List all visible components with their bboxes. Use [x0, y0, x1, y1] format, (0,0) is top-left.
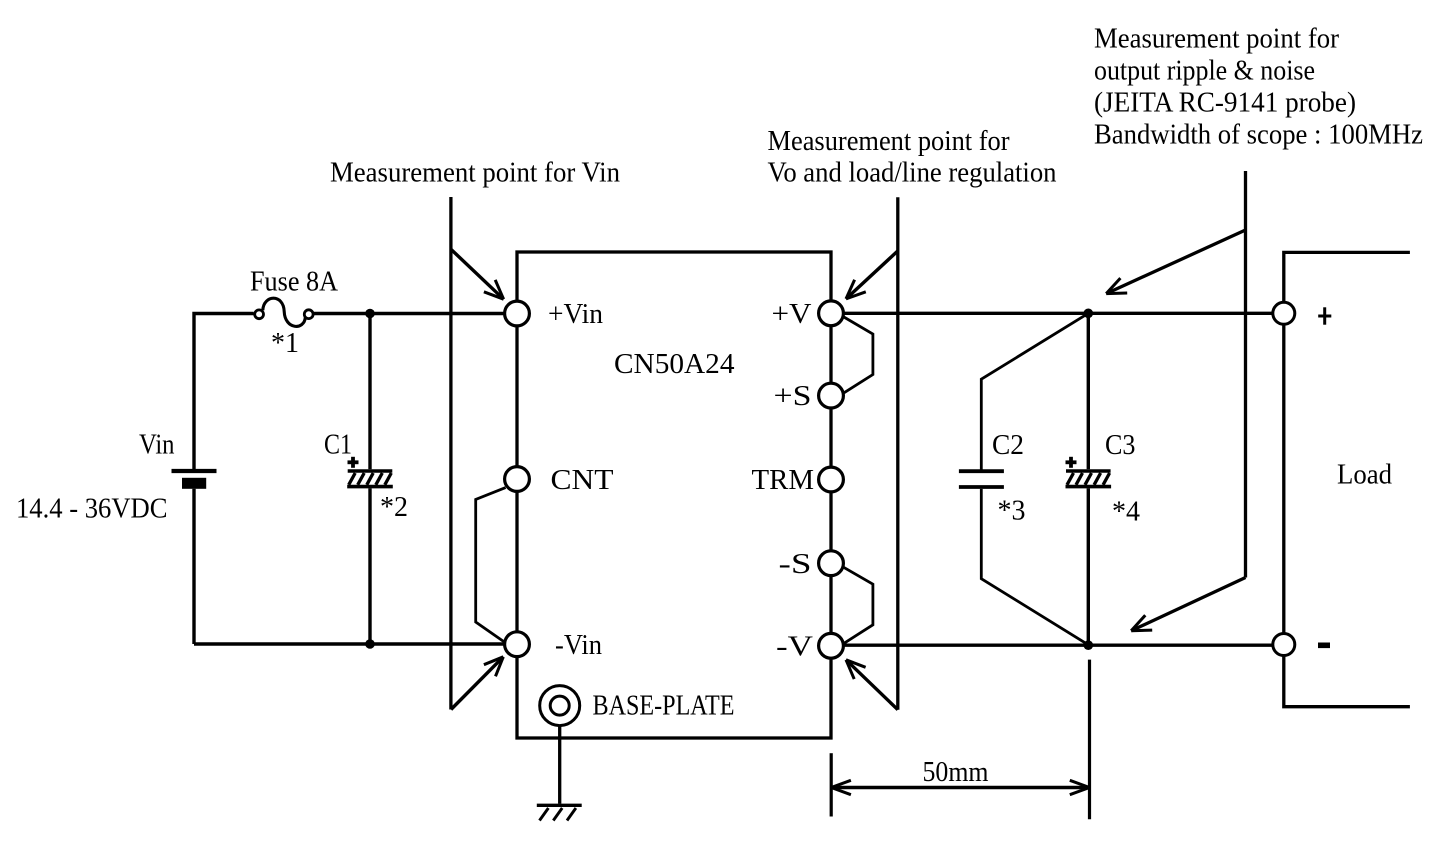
pin +Vin — [505, 301, 530, 326]
svg-text:*1: *1 — [271, 328, 299, 359]
node junction dot -V/C3 — [1084, 640, 1094, 650]
wire -V to load - — [844, 644, 1273, 647]
svg-text:-Vin: -Vin — [555, 630, 602, 661]
svg-text:14.4 - 36VDC: 14.4 - 36VDC — [16, 494, 168, 525]
measurement line for Vo — [896, 197, 899, 709]
capacitor C3 polarity + — [1066, 460, 1077, 464]
fuse F1 left terminal circle — [255, 310, 264, 319]
wire Vin+ to fuse — [194, 314, 254, 470]
svg-text:Measurement point for: Measurement point for — [1094, 23, 1340, 54]
svg-text:Vo and load/line regulation: Vo and load/line regulation — [768, 157, 1057, 188]
svg-text:+S: +S — [774, 381, 812, 412]
ground symbol hatch 3 — [567, 808, 576, 821]
capacitor C2 top plate — [959, 469, 1004, 473]
pin TRM — [819, 467, 844, 492]
svg-text:Bandwidth of scope : 100MHz: Bandwidth of scope : 100MHz — [1094, 120, 1423, 151]
wire +V to +S bend — [843, 317, 873, 393]
svg-text:Vin: Vin — [139, 429, 175, 460]
svg-text:-S: -S — [779, 549, 812, 580]
node junction dot +V/C3 — [1084, 309, 1094, 319]
fuse F1 element — [263, 298, 306, 326]
ground symbol bar — [537, 804, 582, 807]
svg-text:output ripple & noise: output ripple & noise — [1094, 55, 1315, 86]
measurement line for Vin — [449, 197, 452, 710]
base-plate terminal inner circle — [550, 696, 569, 715]
svg-text:(JEITA RC-9141 probe): (JEITA RC-9141 probe) — [1094, 88, 1356, 119]
pin -Vin — [505, 632, 530, 657]
svg-text:C3: C3 — [1105, 430, 1136, 461]
svg-text:+Vin: +Vin — [548, 299, 603, 330]
pin +S — [819, 383, 844, 408]
arrow ripple to +V node — [1106, 230, 1245, 294]
pin -S — [819, 551, 844, 576]
wire Vin- to -Vin — [194, 642, 504, 645]
dimension extension line left — [830, 753, 833, 816]
node junction dot bottom of C1 — [365, 639, 375, 649]
pin +V — [819, 301, 844, 326]
arrow to -Vin pin — [451, 657, 503, 710]
wire C1 top lead — [368, 314, 371, 470]
battery Vin long plate — [172, 469, 217, 473]
pin CNT — [505, 467, 530, 492]
svg-text:TRM: TRM — [752, 465, 815, 496]
svg-text:CNT: CNT — [551, 465, 614, 496]
capacitor C1 (electrolytic) — [348, 469, 393, 473]
svg-text:*4: *4 — [1112, 497, 1140, 528]
wire base-plate to ground — [558, 726, 561, 804]
load box outline — [1284, 252, 1410, 706]
module CN50A24 body — [517, 252, 831, 738]
svg-text:CN50A24: CN50A24 — [614, 349, 735, 380]
wire C2 top lead — [981, 313, 1088, 469]
arrow to +V pin — [846, 251, 898, 299]
arrow to -V pin — [846, 660, 898, 710]
svg-text:-V: -V — [776, 631, 813, 662]
capacitor C2 bottom plate — [959, 485, 1004, 489]
svg-text:+V: +V — [772, 299, 812, 330]
wire +V to load + — [844, 312, 1273, 315]
svg-text:Measurement point for Vin: Measurement point for Vin — [330, 158, 620, 189]
wire CNT to -Vin bend — [476, 488, 506, 643]
label load - — [1318, 643, 1330, 649]
measurement line for ripple probe — [1244, 171, 1247, 578]
terminal load - — [1273, 634, 1295, 656]
ground symbol hatch 1 — [540, 808, 549, 821]
svg-text:Fuse 8A: Fuse 8A — [250, 267, 339, 298]
wire fuse to +Vin — [313, 312, 504, 315]
ground symbol hatch 2 — [553, 808, 562, 821]
svg-text:Load: Load — [1337, 459, 1392, 490]
base-plate terminal outer circle — [540, 686, 580, 726]
svg-text:*2: *2 — [380, 492, 408, 523]
wire C2 bottom lead — [981, 489, 1088, 645]
dimension arrow line 50mm — [831, 786, 1089, 789]
svg-text:50mm: 50mm — [923, 757, 989, 788]
svg-text:C1: C1 — [324, 429, 352, 460]
arrow to +Vin pin — [451, 249, 504, 299]
svg-text:Measurement point for: Measurement point for — [768, 126, 1011, 157]
capacitor C3 (electrolytic) — [1066, 469, 1111, 473]
svg-text:BASE-PLATE: BASE-PLATE — [593, 690, 735, 721]
battery Vin short thick plate — [182, 478, 206, 489]
svg-text:C2: C2 — [992, 430, 1024, 461]
dimension extension line right — [1088, 660, 1091, 820]
arrow ripple to -V node — [1131, 578, 1245, 631]
node junction dot top of C1 — [365, 309, 375, 319]
terminal load + — [1273, 302, 1295, 324]
capacitor C1 polarity + — [348, 460, 359, 464]
wire C1 bottom lead — [368, 488, 371, 644]
fuse F1 right terminal circle — [304, 310, 313, 319]
wire -S to -V bend — [843, 567, 873, 643]
wire C3 bottom lead — [1087, 488, 1090, 645]
pin -V — [819, 633, 844, 658]
wire C3 top lead — [1087, 313, 1090, 469]
svg-text:*3: *3 — [998, 496, 1026, 527]
label load + — [1318, 315, 1331, 318]
wire Vin- down — [192, 489, 195, 644]
